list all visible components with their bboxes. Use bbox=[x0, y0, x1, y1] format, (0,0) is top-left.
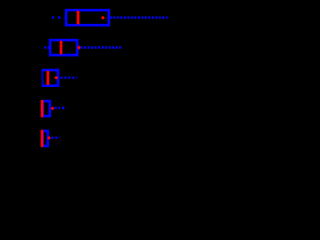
box 3 open path (top, right, bottom edges) bbox=[42, 70, 58, 86]
whisker 1 high (dashed) bbox=[110, 16, 168, 18]
mean 4 bbox=[50, 106, 54, 110]
box 3 left edge (dimmer) bbox=[41, 69, 43, 87]
mean 2 bbox=[77, 46, 81, 50]
whisker 3 high (dashed) bbox=[61, 76, 78, 78]
box 1 bbox=[66, 10, 109, 25]
mean 5 bbox=[47, 136, 51, 140]
median 5 (on left edge) bbox=[41, 130, 44, 147]
median 3 bbox=[47, 71, 50, 85]
box 4 bbox=[43, 101, 50, 116]
whisker 4 high (dashed) bbox=[55, 107, 66, 109]
median 2 bbox=[60, 41, 63, 55]
whisker 2 low (dashed) bbox=[44, 46, 49, 48]
box 2 bbox=[50, 40, 77, 55]
whisker 5 high (dashed) bbox=[51, 137, 60, 139]
whisker 2 high (dashed) bbox=[81, 46, 123, 48]
median 4 (on left edge) bbox=[41, 100, 44, 117]
median 1 bbox=[77, 11, 80, 25]
box 5 bbox=[43, 131, 48, 146]
mean 3 bbox=[54, 76, 58, 80]
mean 1 bbox=[101, 16, 105, 20]
whisker 1 low (dashed) bbox=[52, 16, 65, 18]
